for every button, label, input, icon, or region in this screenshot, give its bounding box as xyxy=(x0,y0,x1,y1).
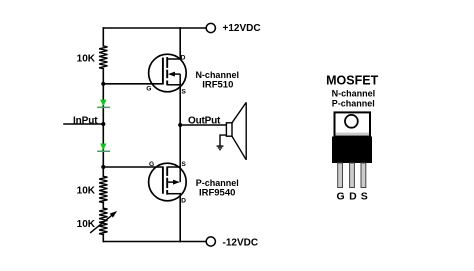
wire R4 to bottom rail xyxy=(102,235,104,242)
svg-text:IRF510: IRF510 xyxy=(202,79,233,90)
wire input lead xyxy=(64,123,103,125)
wire output lead xyxy=(180,124,226,126)
wire drain Q1 to +12V rail xyxy=(179,28,181,59)
wiper arrow of potentiometer R4 xyxy=(90,211,117,233)
svg-text:P-channel: P-channel xyxy=(332,98,375,108)
TO-220 mounting hole xyxy=(345,115,358,128)
svg-text:G: G xyxy=(146,86,151,93)
node input junction xyxy=(101,122,105,126)
TO-220 package tab xyxy=(335,112,371,136)
wire R3 to R4 xyxy=(102,203,104,209)
wire top rail +12V xyxy=(103,27,206,29)
wire bottom rail -12V xyxy=(103,241,206,243)
TO-220 leg G xyxy=(338,163,343,188)
terminal +12VDC xyxy=(206,23,215,32)
svg-text:S: S xyxy=(361,191,368,203)
transistor Q1 N-channel MOSFET IRF510 xyxy=(149,54,187,92)
svg-text:-12VDC: -12VDC xyxy=(223,237,259,248)
resistor R1 10K xyxy=(99,46,107,69)
svg-text:N-channel: N-channel xyxy=(332,89,376,99)
pin labels Q1 xyxy=(146,54,186,95)
svg-text:+12VDC: +12VDC xyxy=(223,23,261,34)
svg-text:D: D xyxy=(181,197,186,204)
TO-220 leg S xyxy=(361,163,366,188)
wire gate lead Q2 xyxy=(103,166,163,168)
transistor Q2 P-channel MOSFET IRF9540 xyxy=(149,163,187,201)
potentiometer R4 10K xyxy=(99,208,107,234)
diode D2 green xyxy=(97,144,110,153)
wire source Q1 to output node xyxy=(179,85,181,167)
speaker LS1 xyxy=(226,102,246,159)
TO-220 leg D xyxy=(350,163,355,188)
svg-text:G: G xyxy=(337,191,345,203)
svg-text:G: G xyxy=(149,161,154,168)
diode D1 green xyxy=(97,100,110,109)
pin labels Q2 xyxy=(149,161,186,204)
TO-220 tab stripe xyxy=(336,133,369,136)
svg-text:D: D xyxy=(181,54,186,61)
node gate Q1 junction xyxy=(101,82,105,86)
wire speaker to ground xyxy=(220,135,226,146)
wire drain Q2 to -12V rail xyxy=(179,194,181,242)
svg-text:S: S xyxy=(181,89,186,96)
svg-text:InPut: InPut xyxy=(73,116,98,127)
svg-text:S: S xyxy=(181,161,186,168)
svg-text:10K: 10K xyxy=(77,219,96,230)
svg-text:IRF9540: IRF9540 xyxy=(199,187,235,198)
resistor R3 10K xyxy=(99,176,107,202)
svg-text:OutPut: OutPut xyxy=(188,115,221,126)
svg-text:10K: 10K xyxy=(77,53,96,64)
ground xyxy=(217,146,224,150)
terminal -12VDC xyxy=(206,237,215,246)
wire left vertical: rail to R1 xyxy=(102,28,104,46)
svg-text:10K: 10K xyxy=(77,185,96,196)
node gate Q2 junction xyxy=(101,165,105,169)
node output junction xyxy=(178,123,182,127)
svg-text:MOSFET: MOSFET xyxy=(326,73,378,87)
wire left vertical: R1 to R3 through diodes xyxy=(102,69,104,177)
wire gate lead Q1 xyxy=(103,83,163,85)
TO-220 body xyxy=(332,137,372,164)
svg-text:D: D xyxy=(349,191,357,203)
